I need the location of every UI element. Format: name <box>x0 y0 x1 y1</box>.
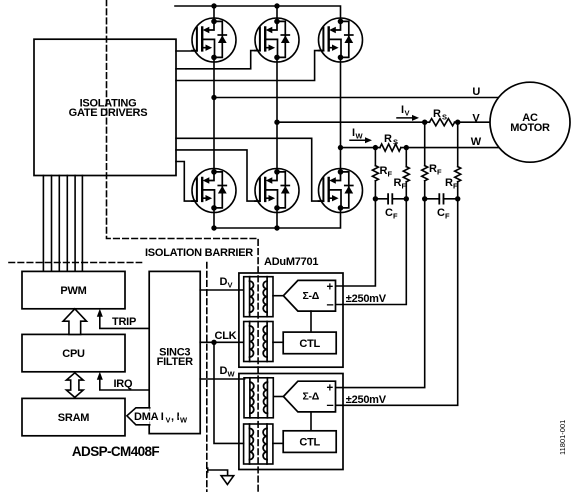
svg-text:Σ-Δ: Σ-Δ <box>303 391 320 403</box>
wire: CLK <box>200 330 244 345</box>
svg-text:R: R <box>380 165 388 177</box>
resistor RF (V left) <box>422 122 442 181</box>
wire: U phase leg <box>211 57 216 172</box>
wire: gate drive Q1 <box>176 50 197 52</box>
resistor RS (W phase shunt) <box>380 133 401 151</box>
wire: DV <box>200 276 244 290</box>
svg-text:F: F <box>393 212 398 221</box>
svg-text:+: + <box>327 382 334 394</box>
block CPU <box>22 334 125 371</box>
svg-text:R: R <box>429 163 437 175</box>
wire: V phase leg <box>274 57 279 172</box>
wire: gate drive Q3 <box>176 51 323 81</box>
wire: CLK to lower module <box>214 342 244 443</box>
wire: IRQ <box>97 372 149 390</box>
svg-text:–: – <box>327 397 334 412</box>
svg-text:V: V <box>472 112 480 124</box>
svg-text:ISOLATION BARRIER: ISOLATION BARRIER <box>145 247 253 259</box>
op-amp U3: sigma-delta modulator 2 <box>283 381 335 412</box>
resistor RF (W left) <box>372 148 392 181</box>
isolation barrier dashed line 1 <box>107 0 259 492</box>
isolation barrier dashed line 2 <box>9 262 142 264</box>
svg-text:CTL: CTL <box>299 338 320 350</box>
block SINC3 FILTER <box>149 271 200 433</box>
wire: phase W line right <box>373 136 499 150</box>
svg-text:C: C <box>437 207 445 219</box>
wire: phase U line <box>214 86 498 98</box>
wire: T2b to CTL 2 <box>273 442 283 444</box>
svg-text:PWM: PWM <box>60 285 86 297</box>
svg-text:GATE DRIVERS: GATE DRIVERS <box>69 107 148 119</box>
wire: gate drive Q5 <box>176 150 260 201</box>
svg-text:+: + <box>327 282 334 294</box>
wire: DW <box>200 365 244 379</box>
transistor Q2 (top, V leg) <box>255 18 299 62</box>
svg-text:R: R <box>433 108 441 120</box>
transformer T2a (DW data) <box>244 378 273 418</box>
label IW current arrow <box>350 127 372 143</box>
svg-text:–: – <box>327 296 334 311</box>
wire: gate drive Q4 <box>176 162 197 202</box>
wire: T2a to sigma-delta 2 <box>273 396 283 398</box>
transistor Q1 (top, U leg) <box>192 18 236 62</box>
svg-text:S: S <box>393 138 398 147</box>
svg-text:±250mV: ±250mV <box>346 293 387 305</box>
wire: phase V line left <box>277 121 430 123</box>
svg-text:W: W <box>471 136 482 148</box>
resistor RS (V phase shunt) <box>430 108 455 126</box>
transformer T1b (CLK) <box>244 322 273 362</box>
op-amp U2: sigma-delta modulator 1 <box>283 280 335 311</box>
svg-text:TRIP: TRIP <box>112 316 136 328</box>
wire: W phase leg <box>338 57 343 172</box>
resistor RF (W right) <box>394 148 410 191</box>
svg-text:V: V <box>166 416 171 425</box>
svg-text:R: R <box>384 133 392 145</box>
svg-text:ADuM7701: ADuM7701 <box>264 256 318 268</box>
ground <box>208 468 234 484</box>
wire: TRIP <box>97 309 149 329</box>
svg-text:V: V <box>228 281 233 290</box>
wire: W right sense <box>336 182 409 305</box>
svg-text:W: W <box>356 132 364 141</box>
svg-text:MOTOR: MOTOR <box>510 122 550 134</box>
svg-text:DMA I: DMA I <box>134 411 164 423</box>
wire: sigma-delta 1 to CTL 1 <box>310 311 312 332</box>
svg-text:CTL: CTL <box>299 437 320 449</box>
block ADuM7701 module 2 <box>239 374 343 470</box>
wire: sigma-delta 2 to CTL 2 <box>310 412 312 431</box>
svg-text:R: R <box>394 177 402 189</box>
svg-text:F: F <box>437 168 442 177</box>
wire: phase V line right <box>422 112 490 125</box>
capacitor CF (W) <box>375 194 406 220</box>
AC MOTOR <box>490 82 570 162</box>
svg-text:C: C <box>385 207 393 219</box>
label IV current arrow <box>397 104 419 121</box>
arrow CPU to PWM <box>63 309 86 335</box>
svg-text:FILTER: FILTER <box>157 356 193 368</box>
arrow DMA to SRAM <box>127 408 188 425</box>
transformer T2b (CLK) <box>244 424 273 464</box>
block PWM <box>22 271 125 308</box>
svg-text:Σ-Δ: Σ-Δ <box>303 290 320 302</box>
svg-text:SRAM: SRAM <box>58 412 89 424</box>
wire: T1a to sigma-delta <box>273 295 283 297</box>
wire: T1b to CTL 1 <box>273 341 283 343</box>
block CTL 1 <box>283 332 336 354</box>
svg-text:IRQ: IRQ <box>114 378 134 390</box>
block ADuM7701 module 1 <box>239 273 343 367</box>
svg-text:D: D <box>220 276 228 288</box>
svg-text:ADSP-CM408F: ADSP-CM408F <box>72 444 160 459</box>
svg-text:F: F <box>445 212 450 221</box>
op-amp U1: ISOLATING GATE DRIVERS box <box>34 39 176 175</box>
wire: V right sense <box>336 182 461 406</box>
block SRAM <box>22 398 125 435</box>
wire: W left sense <box>336 181 379 286</box>
svg-text:W: W <box>180 416 188 425</box>
wire: PWM to gate drivers bus (6 lines) <box>43 176 82 272</box>
svg-text:S: S <box>442 113 447 122</box>
transistor Q3 (top, W leg) <box>319 18 363 62</box>
arrow CPU to SRAM (bidir) <box>66 373 83 398</box>
svg-text:±250mV: ±250mV <box>346 394 387 406</box>
wire: phase W line left <box>341 147 380 149</box>
svg-text:W: W <box>228 370 236 379</box>
svg-text:U: U <box>472 86 480 98</box>
svg-text:D: D <box>220 365 228 377</box>
wire: DC+ bus <box>175 3 341 21</box>
svg-text:11801-001: 11801-001 <box>558 420 567 455</box>
svg-text:F: F <box>388 170 393 179</box>
svg-text:V: V <box>405 109 410 118</box>
resistor RF (V right) <box>445 122 461 190</box>
transistor Q6 (bottom, W leg) <box>319 169 363 213</box>
svg-text:, I: , I <box>171 411 180 423</box>
wire: V left sense <box>336 181 428 388</box>
svg-text:CPU: CPU <box>62 348 85 360</box>
svg-text:R: R <box>445 177 453 189</box>
svg-text:CLK: CLK <box>215 330 237 342</box>
wire: gate drive Q6 <box>176 138 323 201</box>
capacitor CF (V) <box>425 194 458 220</box>
wire: gate drive Q2 <box>176 51 260 69</box>
transformer T1a (DV data) <box>244 277 273 317</box>
block CTL 2 <box>283 431 336 453</box>
transistor Q5 (bottom, V leg) <box>255 169 299 213</box>
wire: DC- bus <box>211 209 340 231</box>
transistor Q4 (bottom, U leg) <box>192 169 236 213</box>
